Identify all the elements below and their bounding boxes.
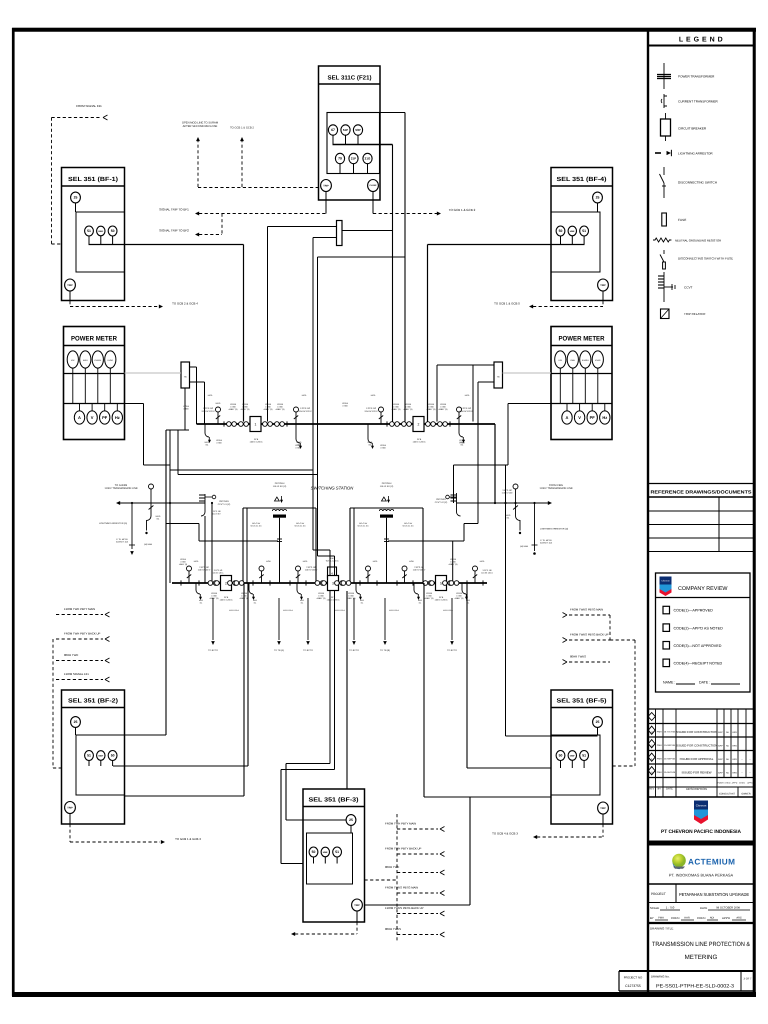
svg-text:GASKET 10A: GASKET 10A — [540, 542, 553, 545]
wire TB-3 lead to BF-3 rail — [313, 237, 337, 239]
left entry CCVT CVT-1 — [204, 494, 206, 512]
company review checkboxes — [663, 606, 670, 614]
svg-text:SEL 351 (BF-2): SEL 351 (BF-2) — [68, 698, 118, 705]
relay F21 element 67 — [328, 125, 337, 135]
line bay GCB-2 left CT pairs — [390, 422, 395, 427]
svg-text:NEUTRAL GROUNDING RESISTOR: NEUTRAL GROUNDING RESISTOR — [675, 239, 721, 243]
svg-text:2: 2 — [225, 581, 227, 585]
svg-text:FROM TWKS PBTG BACK UP: FROM TWKS PBTG BACK UP — [570, 633, 609, 637]
svg-text:ML: ML — [419, 601, 422, 604]
svg-text:51: 51 — [87, 754, 91, 758]
svg-text:17 PL MCOV: 17 PL MCOV — [540, 539, 552, 542]
actemium contractor block — [672, 854, 686, 869]
legend symbol disconnecting switch — [663, 167, 665, 175]
svg-text:LIGHTNING ARRESTOR: LIGHTNING ARRESTOR — [678, 152, 713, 156]
svg-text:CODE(4)—RECEIPT NOTED: CODE(4)—RECEIPT NOTED — [674, 662, 723, 666]
relay F21 element 50P — [353, 125, 362, 135]
wire center routing left loop — [166, 429, 189, 431]
svg-text:50: 50 — [559, 229, 563, 233]
svg-text:#9B57 (3): #9B57 (3) — [276, 408, 285, 411]
svg-text:FUSE: FUSE — [678, 218, 686, 222]
right entry CCVT CVT-2 — [456, 493, 458, 512]
svg-text:C 800: C 800 — [230, 406, 236, 409]
svg-text:KM: KM — [331, 557, 334, 560]
svg-text:3 PCS 1Ø: 3 PCS 1Ø — [461, 407, 471, 410]
project name row — [675, 884, 677, 903]
test block TB-1 — [181, 362, 190, 388]
svg-text:51: 51 — [582, 229, 586, 233]
svg-text:1200/5: 1200/5 — [405, 403, 412, 406]
svg-text:DISCONNECTING SWITCH WITH FUS: DISCONNECTING SWITCH WITH FUSE — [678, 257, 733, 261]
line bay circuit breaker GCB-1 — [250, 417, 261, 432]
relay F21 inner function group box — [327, 113, 380, 174]
company review box — [656, 573, 751, 692]
relay BF-4 element 51 — [580, 226, 589, 236]
svg-text:AFTER SECOND RECLOSE: AFTER SECOND RECLOSE — [183, 125, 218, 128]
svg-text:-: - — [742, 770, 743, 774]
svg-text:TO GCB 2 & GCB 4: TO GCB 2 & GCB 4 — [172, 302, 198, 306]
svg-text:1200/5: 1200/5 — [230, 403, 237, 406]
svg-text:C 800: C 800 — [456, 595, 462, 598]
svg-text:08 OCTOBER 2008: 08 OCTOBER 2008 — [716, 907, 740, 910]
svg-text:TRIP: TRIP — [600, 284, 606, 287]
svg-text:TO BCTG: TO BCTG — [349, 649, 359, 652]
svg-text:POWER METER: POWER METER — [71, 336, 117, 343]
svg-text:ML: ML — [361, 601, 364, 604]
svg-text:110KV TRANSMISSION LINE: 110KV TRANSMISSION LINE — [104, 487, 138, 490]
svg-text:FROM TWKS PBTG BACK UP: FROM TWKS PBTG BACK UP — [385, 906, 424, 910]
legend/title-block column divider — [647, 29, 649, 994]
svg-text:MOD: MOD — [194, 560, 199, 563]
svg-text:C 800: C 800 — [277, 406, 283, 409]
wire TRIP stem — [325, 192, 327, 214]
relay BF-1 element 51 — [85, 226, 94, 236]
svg-text:CODE(1)—APPROVED: CODE(1)—APPROVED — [674, 609, 714, 613]
svg-text:MOD: MOD — [302, 394, 307, 397]
svg-text:GASKET 10A: GASKET 10A — [116, 541, 129, 544]
relay BF-2 element 51 — [85, 751, 94, 761]
svg-text:SEL 311C (F21): SEL 311C (F21) — [328, 75, 372, 82]
svg-text:2 PCS 1Ø: 2 PCS 1Ø — [199, 566, 209, 569]
svg-text:115KV, 1200 A: 115KV, 1200 A — [412, 441, 426, 444]
relay BF-1 element 25 — [71, 192, 81, 203]
svg-text:KW: KW — [71, 359, 74, 362]
legend symbol neutral grounding resistor — [653, 238, 671, 242]
svg-text:51: 51 — [335, 850, 339, 854]
svg-text:TO GCB 1 & GCB 2: TO GCB 1 & GCB 2 — [230, 127, 254, 130]
svg-text:Chevron: Chevron — [696, 804, 707, 808]
svg-text:APP'D: APP'D — [747, 782, 753, 785]
svg-text:PETAPAHAN SUBSTATION UPGRADE: PETAPAHAN SUBSTATION UPGRADE — [679, 892, 749, 897]
svg-text:PF: PF — [102, 415, 108, 420]
svg-text:A: A — [566, 415, 569, 420]
svg-text:MOD: MOD — [156, 515, 161, 518]
svg-text:BAP: BAP — [718, 744, 723, 747]
svg-text:BY: BY — [658, 788, 662, 791]
svg-text:PT. INDOKOMAS BUANA PERKASA: PT. INDOKOMAS BUANA PERKASA — [669, 873, 734, 878]
svg-text:MOD: MOD — [409, 560, 414, 563]
svg-text:115 IN 120 A: 115 IN 120 A — [481, 572, 493, 575]
line bay circuit breaker GCB-2 — [413, 417, 424, 432]
svg-text:ISSUED FOR CONSTRUCTION: ISSUED FOR CONSTRUCTION — [676, 730, 718, 734]
wire center routing left loop 2 — [177, 430, 179, 475]
wire BF-5 pilot — [506, 735, 598, 737]
svg-text:50BF: 50BF — [570, 230, 576, 233]
svg-text:TOTAL 1200 A: TOTAL 1200 A — [326, 560, 340, 563]
svg-text:ARS: ARS — [732, 771, 737, 774]
svg-text:115 KV:120: 115 KV:120 — [502, 492, 513, 495]
svg-text:MOD: MOD — [297, 441, 302, 444]
svg-text:GCB: GCB — [254, 438, 259, 441]
svg-text:ACB 1200 A: ACB 1200 A — [443, 609, 454, 612]
svg-text:115:√3 KV (X): 115:√3 KV (X) — [380, 485, 394, 488]
power meter box — [551, 327, 612, 440]
wire BF-2 second riser — [243, 583, 245, 796]
svg-text:KWH: KWH — [570, 359, 575, 362]
svg-text:C 800: C 800 — [380, 447, 385, 450]
svg-text:C 800: C 800 — [459, 442, 464, 445]
svg-text:3 PCS 1Ø: 3 PCS 1Ø — [482, 569, 491, 572]
dashed BF-3 trip output — [356, 922, 358, 934]
relay BF-3 element 25 — [346, 815, 356, 826]
svg-text:FROM TWH PBTY MAIN: FROM TWH PBTY MAIN — [64, 607, 95, 611]
node junction left entry — [131, 502, 133, 504]
svg-text:DATE: DATE — [666, 788, 673, 791]
wire TB-3 right lead to relay CT circuit — [342, 230, 393, 232]
svg-text:PROJECT: PROJECT — [651, 892, 666, 896]
svg-text:PT CHEVRON PACIFIC INDONESIA: PT CHEVRON PACIFIC INDONESIA — [661, 829, 741, 835]
svg-text:C 800: C 800 — [405, 406, 411, 409]
svg-text:SIGNAL TRIP TO BF1: SIGNAL TRIP TO BF1 — [159, 208, 189, 212]
svg-text:ML: ML — [254, 601, 257, 604]
svg-text:25: 25 — [74, 196, 78, 200]
lower bus bay GCB-2 components — [208, 581, 213, 586]
svg-text:21P: 21P — [351, 157, 356, 161]
svg-text:15-AUG-08: 15-AUG-08 — [664, 771, 676, 774]
svg-text:ISSUED FOR APPROVAL: ISSUED FOR APPROVAL — [680, 757, 714, 761]
svg-text:DISCONNECTING SWITCH: DISCONNECTING SWITCH — [678, 181, 717, 185]
svg-text:TRIP: TRIP — [323, 184, 329, 187]
svg-text:C 800: C 800 — [216, 442, 221, 445]
right entry disconnect MOD stub — [515, 489, 517, 516]
svg-text:50: 50 — [111, 754, 115, 758]
legend symbol power transformer — [663, 63, 665, 89]
power meter transducer elements KW KWH KVARH KVAR — [555, 351, 566, 368]
svg-text:01-OCT-08: 01-OCT-08 — [664, 731, 676, 734]
power meter indicating instruments A V PF Hz — [74, 411, 84, 424]
svg-text:REFERENCE DRAWINGS/DOCUMENTS: REFERENCE DRAWINGS/DOCUMENTS — [651, 490, 752, 495]
svg-text:#9B57 (3): #9B57 (3) — [449, 563, 458, 566]
svg-text:-: - — [742, 757, 743, 761]
svg-text:C 800: C 800 — [295, 447, 300, 450]
wire BF-3 route from bus right — [423, 583, 425, 797]
svg-text:115 KV:120 V: 115 KV:120 V — [459, 410, 473, 413]
wire left VT secondary route — [184, 388, 186, 430]
line bay GCB-2 right MOD stub — [458, 412, 460, 424]
svg-text:DATE: DATE — [700, 906, 707, 910]
svg-text:HAR: HAR — [684, 917, 690, 920]
svg-text:SEL 351 (BF-4): SEL 351 (BF-4) — [557, 176, 607, 183]
svg-text:C 800: C 800 — [318, 595, 324, 598]
power meter indicating instruments A V PF Hz — [562, 411, 572, 424]
svg-text:51: 51 — [87, 229, 91, 233]
dashed link BF-3 box to riser — [365, 879, 398, 881]
relay SEL 311C (F21) box U-F21 — [319, 66, 381, 200]
wire BF-1 trip output to line breaker — [88, 236, 90, 245]
lower bus disconnect stubs — [188, 571, 190, 583]
svg-text:MOD: MOD — [506, 514, 511, 517]
relay BF-2 TRIP contact — [65, 802, 76, 814]
svg-text:FROM TWKS PBTG MAIN: FROM TWKS PBTG MAIN — [570, 608, 603, 612]
lower switching station bus — [172, 582, 487, 584]
reference drawings/documents header — [648, 483, 754, 485]
svg-text:ML: ML — [200, 601, 203, 604]
svg-text:C 800: C 800 — [342, 405, 347, 408]
svg-text:115 KV:120 V: 115 KV:120 V — [305, 569, 318, 572]
svg-text:BAP: BAP — [718, 771, 723, 774]
svg-text:L E G E N D: L E G E N D — [679, 37, 723, 44]
relay BF-2 element 50 — [108, 751, 117, 761]
svg-text:BAP: BAP — [718, 758, 723, 761]
dashed BF-1 trip to GCB 2 and 4 — [69, 301, 71, 307]
svg-text:1200/5: 1200/5 — [265, 403, 272, 406]
lower bus bay GCB-5 components — [423, 581, 428, 586]
svg-text:CHK'D: CHK'D — [697, 916, 705, 920]
legend symbol current transformer — [661, 94, 667, 108]
svg-text:ARS: ARS — [732, 758, 737, 761]
relay BF-1 element 50 — [108, 226, 117, 236]
dashed riser joining BF-2 — [52, 639, 54, 768]
relay BF-1 TRIP contact — [65, 279, 76, 291]
svg-text:115 KV:120 V: 115 KV:120 V — [198, 569, 211, 572]
svg-text:P.MGR: P.MGR — [718, 782, 725, 785]
svg-text:PBTGWH: PBTGWH — [436, 498, 446, 501]
svg-text:C 800: C 800 — [428, 406, 434, 409]
svg-text:TO GCB 1 & GCB 3: TO GCB 1 & GCB 3 — [175, 837, 201, 841]
wire F21 output bus — [332, 135, 334, 144]
svg-text:MOD: MOD — [205, 441, 210, 444]
svg-text:GCB: GCB — [331, 596, 336, 599]
node junctions right entry — [494, 502, 496, 504]
svg-text:KVAR: KVAR — [108, 359, 114, 362]
relay BF-5 TRIP contact — [598, 802, 609, 814]
wire BF-2 pilot from upper area — [165, 430, 167, 735]
svg-text:FROM TWH PBTY BACK UP: FROM TWH PBTY BACK UP — [385, 847, 422, 851]
wire right rail to lower bus A — [452, 541, 454, 583]
svg-text:TRIP RELAYER: TRIP RELAYER — [684, 312, 706, 316]
left entry lightning arrester LA-1 — [131, 503, 133, 549]
test block TB-2 — [494, 362, 503, 388]
power meter box — [64, 327, 125, 440]
relay SEL 351 (BF-5) box — [551, 690, 613, 824]
chevron company block — [694, 801, 708, 825]
svg-text:C 800: C 800 — [450, 561, 456, 564]
svg-text:Hz: Hz — [115, 415, 120, 420]
svg-text:50: 50 — [559, 754, 563, 758]
svg-text:#9B57 (3): #9B57 (3) — [439, 408, 448, 411]
svg-text:TO GCB 1 & GCB 2: TO GCB 1 & GCB 2 — [449, 208, 476, 212]
svg-text:C1273755: C1273755 — [625, 984, 641, 988]
svg-text:115KV, 1200 A: 115KV, 1200 A — [219, 599, 233, 602]
svg-text:ACB 1200 A: ACB 1200 A — [283, 609, 294, 612]
lower bus ground hooks — [196, 583, 200, 594]
legend symbol trip relay — [661, 309, 670, 319]
svg-text:SCALE: SCALE — [650, 906, 659, 910]
svg-text:PMH: PMH — [658, 917, 664, 920]
svg-text:#9B57 (3): #9B57 (3) — [210, 597, 219, 600]
svg-text:TRANSMISSION LINE PROTECTION: TRANSMISSION LINE PROTECTION & — [652, 941, 751, 948]
wire upper bus end drop to entry junction — [494, 424, 496, 503]
svg-text:17 PL MCOV: 17 PL MCOV — [116, 538, 128, 541]
svg-text:#9B57 (3): #9B57 (3) — [317, 597, 326, 600]
svg-text:MOD: MOD — [480, 560, 485, 563]
svg-text:25: 25 — [74, 720, 78, 724]
relay BF-3 element 50 — [309, 847, 318, 857]
svg-text:3: 3 — [332, 581, 334, 585]
svg-text:KWH: KWH — [83, 359, 88, 362]
relay BF-4 element 50BF — [568, 226, 576, 236]
line bay GCB-2 left MOD stub — [380, 412, 382, 424]
relay BF-4 element 25 — [593, 192, 603, 203]
svg-text:OWNER: OWNER — [741, 793, 750, 796]
relay BF-2 element 50BF — [97, 751, 105, 761]
svg-text:FROM TWH PBTY MAIN: FROM TWH PBTY MAIN — [385, 822, 416, 826]
wire meter PM-2 CT link (light) — [503, 372, 552, 374]
svg-text:C 800: C 800 — [348, 595, 354, 598]
svg-text:C 800: C 800 — [242, 406, 248, 409]
svg-text:C 800: C 800 — [426, 595, 432, 598]
svg-text:5: 5 — [440, 581, 442, 585]
svg-text:3 OF 7: 3 OF 7 — [744, 978, 752, 981]
svg-text:1: 1 — [255, 422, 257, 426]
relay BF-3 element 51 — [333, 847, 342, 857]
relay F21 CLOSE contact — [368, 180, 379, 192]
svg-text:CCVT: CCVT — [684, 286, 693, 290]
svg-text:CHK'D: CHK'D — [671, 916, 679, 920]
relay SEL 351 (BF-1) box — [62, 168, 125, 301]
svg-text:KW: KW — [559, 359, 562, 362]
svg-text:2 PCS 1Ø: 2 PCS 1Ø — [414, 566, 424, 569]
legend title bar — [648, 45, 754, 47]
relay BF-4 inner group box — [551, 212, 600, 272]
svg-text:C 800: C 800 — [183, 408, 188, 411]
svg-text:ARS: ARS — [736, 917, 742, 920]
svg-text:MOD: MOD — [465, 394, 470, 397]
svg-text:MOD: MOD — [266, 560, 271, 563]
relay BF-4 TRIP contact — [598, 279, 609, 291]
wire power meter current circuit rail — [64, 373, 125, 375]
svg-text:MOD: MOD — [303, 560, 308, 563]
svg-text:115 KV:120 V: 115 KV:120 V — [364, 410, 378, 413]
svg-text:KVARH: KVARH — [94, 359, 101, 362]
relay F21 element 21P — [349, 153, 358, 163]
relay F21 element 51P — [341, 125, 350, 135]
svg-text:51P: 51P — [343, 128, 348, 132]
svg-text:ML: ML — [467, 601, 470, 604]
svg-text:1200/5: 1200/5 — [348, 592, 355, 595]
svg-text:CHK'D: CHK'D — [739, 782, 745, 785]
svg-text:TO BCTG: TO BCTG — [208, 649, 218, 652]
svg-text:AD: AD — [726, 771, 729, 774]
relay BF-5 inner group box — [551, 735, 600, 795]
svg-text:DRAWING No.: DRAWING No. — [651, 975, 670, 979]
svg-text:BY: BY — [650, 916, 654, 920]
lower bus bay GCB-3 components — [315, 581, 320, 586]
svg-text:ACTEMIUM: ACTEMIUM — [688, 858, 735, 867]
relay F21 element 79 — [335, 153, 344, 163]
svg-text:CONSULTANT: CONSULTANT — [719, 793, 735, 796]
svg-text:V: V — [91, 415, 94, 420]
svg-text:ML: ML — [301, 601, 304, 604]
wire VT VT-2 secondary drop — [386, 518, 388, 583]
right entry lightning arrester LA-2 — [534, 503, 536, 551]
legend symbol circuit breaker — [665, 113, 667, 119]
svg-text:3 PCS 1Ø: 3 PCS 1Ø — [203, 407, 213, 410]
svg-text:NAME :: NAME : — [663, 681, 675, 685]
svg-text:SWITCHING STATION: SWITCHING STATION — [311, 486, 355, 491]
relay BF-3 element 50BF — [321, 847, 329, 857]
dashed riser for BF-3 signals — [396, 814, 398, 941]
svg-text:FROM SIGNAL F21: FROM SIGNAL F21 — [76, 104, 102, 108]
svg-text:2 PCS 1Ø: 2 PCS 1Ø — [306, 566, 316, 569]
svg-text:TRIP: TRIP — [354, 904, 360, 907]
svg-text:KVARH: KVARH — [582, 359, 589, 362]
dashed BF-5 trip to GCB 4 and GCB 3 — [602, 824, 604, 837]
svg-text:3 PCS 1Ø: 3 PCS 1Ø — [502, 489, 512, 492]
svg-text:KVAR: KVAR — [595, 359, 601, 362]
line bay GCB-1 right CT pairs — [263, 422, 268, 427]
svg-text:SEL 351 (BF-3): SEL 351 (BF-3) — [309, 797, 359, 804]
svg-text:115 IN 120 A: 115 IN 120 A — [213, 572, 225, 575]
power meter transducer elements KW KWH KVARH KVAR — [67, 351, 78, 368]
wire power meter current circuit rail — [551, 373, 612, 375]
svg-text:79: 79 — [338, 157, 342, 161]
dashed signal close to GCB 1 and GCB 2 — [373, 213, 437, 215]
svg-text:SIGNAL TRIP TO BF2: SIGNAL TRIP TO BF2 — [159, 229, 189, 233]
wire F21 CT leads down to line CTs — [380, 112, 406, 114]
svg-text:115:√3 KV (X): 115:√3 KV (X) — [273, 485, 287, 488]
svg-text:#9B57 (3): #9B57 (3) — [179, 563, 188, 566]
svg-text:APP'D: APP'D — [722, 916, 730, 920]
svg-text:1200/5: 1200/5 — [426, 592, 433, 595]
wire TB-1 risers to bus — [190, 366, 197, 368]
svg-text:TO GCB 4 & GCB 3: TO GCB 4 & GCB 3 — [492, 832, 518, 836]
svg-text:AD: AD — [726, 731, 729, 734]
svg-text:CLOSE: CLOSE — [370, 184, 378, 187]
relay BF-5 element 25 — [593, 717, 603, 728]
test block TB-3 (line CT secondaries) — [337, 221, 343, 246]
wire companion rail left bay — [246, 508, 248, 583]
svg-text:1200/5: 1200/5 — [450, 558, 457, 561]
svg-text:#9B57 (3): #9B57 (3) — [241, 408, 250, 411]
line bay GCB-2 ground hooks — [368, 424, 372, 443]
svg-text:CURRENT TRANSFORMER: CURRENT TRANSFORMER — [678, 100, 719, 104]
wire BF-4 trip output to line breaker — [560, 236, 562, 245]
svg-text:TO TB (A): TO TB (A) — [274, 649, 284, 652]
svg-text:TO TB (B): TO TB (B) — [380, 649, 390, 652]
svg-text:AD: AD — [726, 744, 729, 747]
svg-text:01-SEP-08: 01-SEP-08 — [664, 758, 675, 761]
svg-text:TO BCTG: TO BCTG — [447, 649, 457, 652]
svg-text:POWER TRANSFORMER: POWER TRANSFORMER — [678, 75, 715, 79]
svg-text:115:√3 KV: 115:√3 KV — [211, 513, 221, 516]
svg-text:FROM SIGNAL F21: FROM SIGNAL F21 — [64, 672, 89, 676]
svg-text:25: 25 — [596, 720, 600, 724]
wire CLOSE stem — [372, 192, 374, 214]
svg-text:1200/5: 1200/5 — [393, 403, 400, 406]
dashed BF-2 trip to GCB 1 and GCB 3 — [69, 824, 71, 842]
wire TB-2 second lead to upper bus — [472, 365, 474, 422]
